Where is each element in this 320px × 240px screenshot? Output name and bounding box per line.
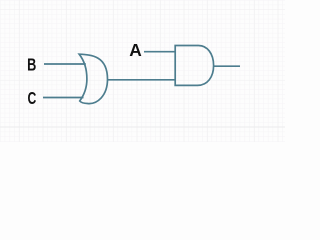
wire B bbox=[44, 63, 86, 65]
svg-text:C: C bbox=[27, 89, 36, 109]
svg-text:A: A bbox=[129, 40, 142, 60]
wire A bbox=[144, 51, 175, 53]
wire OR output to AND input bbox=[108, 79, 176, 81]
grid background bbox=[0, 0, 285, 142]
grid major lines bbox=[0, 0, 285, 142]
ruled major line bbox=[0, 126, 285, 128]
OR gate U1 bbox=[79, 54, 107, 103]
wire AND output bbox=[214, 65, 240, 67]
svg-text:B: B bbox=[27, 55, 36, 75]
wire C bbox=[43, 97, 84, 99]
AND gate U2 bbox=[175, 46, 213, 86]
